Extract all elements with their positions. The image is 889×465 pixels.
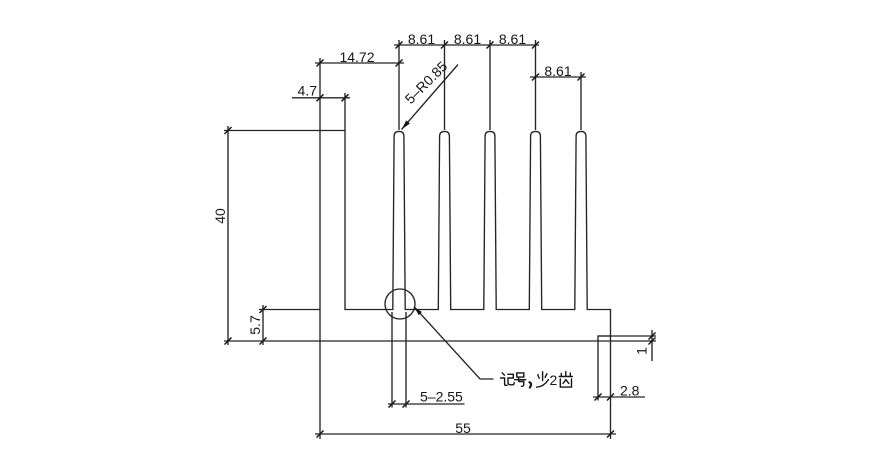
heatsink profile outline <box>320 131 611 342</box>
dimension 5-2.55 <box>388 312 465 408</box>
glyph ， (fullwidth comma) <box>530 382 532 387</box>
detail circle (mark, 2 teeth missing) <box>385 289 415 319</box>
svg-text:8.61: 8.61 <box>454 31 481 47</box>
glyph 记 <box>501 373 507 386</box>
svg-text:1: 1 <box>634 347 650 355</box>
svg-text:8.61: 8.61 <box>544 63 571 79</box>
leader 5-R0.85 with arrow <box>402 58 459 130</box>
leader to detail circle with arrow <box>414 307 494 379</box>
svg-text:8.61: 8.61 <box>408 31 435 47</box>
svg-text:40: 40 <box>212 208 228 224</box>
glyph 齿 <box>559 372 572 388</box>
dimension 4.7 <box>292 83 350 131</box>
annotation text 记号，少2齿 (drawn as vector strokes) <box>501 372 573 388</box>
svg-text:5.7: 5.7 <box>247 315 263 335</box>
dimension 8.61 second row <box>530 63 586 130</box>
svg-text:55: 55 <box>455 420 471 436</box>
dimension 14.72 <box>315 49 404 131</box>
svg-text:8.61: 8.61 <box>499 31 526 47</box>
dimension 2.8 <box>593 341 645 401</box>
svg-text:2.8: 2.8 <box>620 383 640 399</box>
dimension 8.61 first row (three segments) <box>394 31 539 130</box>
svg-text:4.7: 4.7 <box>298 83 318 99</box>
dimension 40 (vertical) <box>212 126 320 345</box>
svg-text:14.72: 14.72 <box>339 49 374 65</box>
svg-text:2: 2 <box>550 372 558 388</box>
dimension 55 <box>315 336 616 439</box>
dimension 5.7 (vertical) <box>247 305 320 345</box>
glyph 号 <box>515 373 526 386</box>
glyph 少 <box>537 372 549 387</box>
dimension 1 (vertical, right) <box>598 330 656 361</box>
svg-text:5–2.55: 5–2.55 <box>420 389 463 405</box>
